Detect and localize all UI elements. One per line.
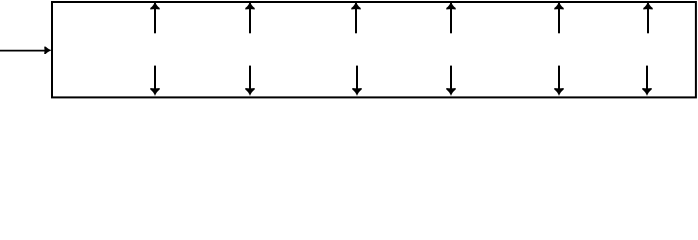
wire: bottom arrow 5 shaft	[558, 66, 560, 93]
arrowhead: bottom arrow 1 (down, at bottom border)	[150, 88, 159, 96]
wire: input flow line entering from left	[0, 50, 46, 52]
wire: top arrow 2 shaft	[249, 2, 251, 33]
arrowhead: top arrow 1 (up, at top border)	[150, 2, 159, 10]
arrowhead: bottom arrow 5	[554, 88, 563, 96]
arrowhead: input arrow into box	[44, 47, 52, 54]
arrowhead: bottom arrow 6	[642, 88, 651, 96]
wire: bottom arrow 2 shaft	[249, 66, 251, 93]
arrowhead: top arrow 2	[245, 2, 254, 10]
wire: top arrow 4 shaft	[450, 2, 452, 33]
arrowhead: top arrow 6	[643, 2, 652, 10]
arrowhead: bottom arrow 4	[446, 88, 455, 96]
arrowhead: top arrow 5	[554, 2, 563, 10]
wire: top arrow 5 shaft	[558, 2, 560, 33]
system box (control volume rectangle)	[52, 2, 696, 97]
arrowhead: bottom arrow 3	[352, 88, 361, 96]
arrowhead: top arrow 4	[446, 2, 455, 10]
arrowhead: bottom arrow 2	[245, 88, 254, 96]
arrowhead: top arrow 3	[351, 2, 360, 10]
wire: bottom arrow 1 shaft	[154, 66, 156, 93]
wire: bottom arrow 6 shaft	[646, 66, 648, 93]
wire: top arrow 3 shaft	[355, 2, 357, 33]
wire: bottom arrow 4 shaft	[450, 66, 452, 93]
wire: bottom arrow 3 shaft	[356, 66, 358, 93]
wire: top arrow 6 shaft	[647, 2, 649, 33]
wire: top arrow 1 shaft	[154, 2, 156, 33]
